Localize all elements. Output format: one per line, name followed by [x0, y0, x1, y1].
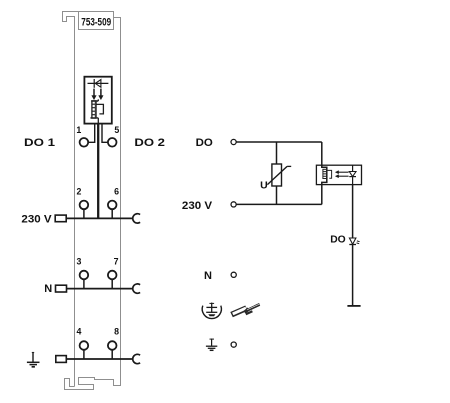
- pin number 4: [77, 326, 82, 336]
- terminal circle pin3: [80, 271, 89, 280]
- wire stub pin6: [111, 209, 113, 219]
- wire pin5 lead: [102, 124, 108, 143]
- LED light arrows: [92, 89, 104, 100]
- varistor RV1: [267, 142, 291, 204]
- svg-text:DO: DO: [330, 233, 346, 245]
- terminal circle pin1: [80, 138, 89, 147]
- label DO indicator: [330, 233, 346, 245]
- 230V rail: [67, 217, 133, 219]
- internal bus bar: [347, 305, 360, 307]
- label DO right: [196, 137, 214, 149]
- wire LED output: [352, 185, 354, 306]
- label N right: [204, 270, 212, 282]
- terminal circle pin2: [80, 201, 89, 210]
- pin number 5: [114, 125, 119, 135]
- svg-text:6: 6: [114, 186, 119, 196]
- terminal 230V right: [231, 202, 236, 207]
- LED indicator D3: [349, 238, 359, 245]
- pin number 2: [77, 186, 82, 196]
- wire 230V right: [236, 203, 321, 205]
- terminal circle pin5: [108, 138, 117, 147]
- earth symbol left: [27, 352, 40, 367]
- svg-text:DO 2: DO 2: [134, 137, 165, 149]
- terminal square earth: [56, 356, 67, 363]
- LED D2 in box: [349, 165, 356, 184]
- pin number 3: [77, 257, 82, 267]
- label DO 2: [134, 137, 165, 149]
- wire triac branch: [322, 142, 327, 204]
- LED D1: [88, 79, 109, 88]
- terminal square 230V: [55, 215, 66, 222]
- svg-text:2: 2: [77, 186, 82, 196]
- label 230 V right: [182, 200, 213, 212]
- pin number 7: [114, 257, 119, 267]
- electronics box U1: [84, 77, 111, 124]
- svg-text:N: N: [204, 270, 212, 282]
- DIN rail icon: [230, 303, 260, 317]
- svg-text:8: 8: [114, 326, 119, 336]
- wire 230V center feed: [97, 124, 99, 219]
- terminal circle pin6: [108, 201, 117, 210]
- terminal circle pin7: [108, 271, 117, 280]
- power jumper contact row3: [133, 284, 140, 293]
- terminal circle pin8: [108, 341, 117, 350]
- wire stub pin7: [111, 279, 113, 289]
- svg-text:DO 1: DO 1: [24, 137, 55, 149]
- svg-text:7: 7: [114, 257, 119, 267]
- solid-state switch S2: [323, 169, 332, 178]
- earth rail: [66, 358, 132, 360]
- svg-text:DO: DO: [196, 137, 214, 149]
- optocoupler box: [316, 165, 361, 184]
- wire DO: [236, 141, 321, 143]
- svg-text:230 V: 230 V: [182, 200, 213, 212]
- pin number 1: [76, 125, 81, 135]
- ground symbol mid: [206, 339, 217, 351]
- svg-text:1: 1: [76, 125, 81, 135]
- pin number 6: [114, 186, 119, 196]
- svg-text:N: N: [44, 283, 52, 295]
- label N left: [44, 283, 52, 295]
- svg-text:230 V: 230 V: [21, 214, 52, 226]
- label 753-509: [81, 16, 111, 28]
- terminal DO: [231, 139, 236, 144]
- terminal circle pin4: [80, 341, 89, 350]
- pin number 8: [114, 326, 119, 336]
- wire stub pin4: [83, 350, 85, 360]
- wire stub pin8: [111, 350, 113, 360]
- terminal N right: [231, 272, 236, 277]
- power jumper contact row4: [133, 354, 140, 363]
- svg-text:753-509: 753-509: [81, 16, 111, 28]
- power jumper contact row2: [133, 214, 140, 223]
- label U: [260, 180, 268, 192]
- svg-text:4: 4: [77, 326, 82, 336]
- module body outline: [63, 12, 121, 387]
- terminal earth right: [231, 342, 236, 347]
- protective earth symbol: [202, 303, 221, 319]
- N rail: [67, 288, 133, 290]
- label 230 V left: [21, 214, 52, 226]
- label DO 1: [24, 137, 55, 149]
- terminal square N: [56, 285, 67, 292]
- wire stub pin3: [83, 279, 85, 289]
- svg-text:3: 3: [77, 257, 82, 267]
- svg-text:U: U: [260, 180, 268, 192]
- wire pin1 lead: [88, 124, 94, 143]
- light arrows S2: [335, 171, 348, 178]
- wire stub pin2: [83, 209, 85, 219]
- module foot (DIN rail latch): [65, 377, 121, 390]
- solid-state switch S1: [90, 99, 103, 123]
- svg-text:5: 5: [114, 125, 119, 135]
